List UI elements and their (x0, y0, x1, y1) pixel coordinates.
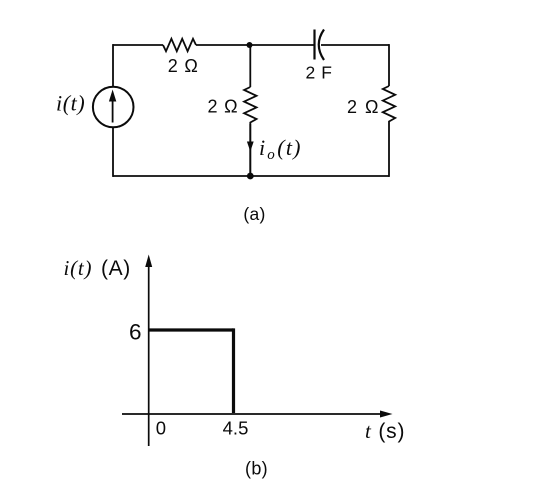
resistor R2 2ohm middle vertical zigzag (244, 87, 256, 124)
wire left vertical lower (source to bottom rail) (112, 127, 114, 177)
svg-text:2 Ω: 2 Ω (347, 97, 380, 117)
current source I1 arrow head (109, 90, 116, 102)
svg-text:4.5: 4.5 (223, 418, 249, 439)
current source I1 arrow shaft (112, 96, 114, 123)
wire top-left (source top to R1) (113, 44, 163, 46)
svg-text:2 F: 2 F (305, 62, 332, 82)
svg-text:t(s): t(s) (365, 419, 405, 443)
svg-text:0: 0 (156, 418, 166, 439)
svg-text:(b): (b) (245, 458, 268, 478)
wire bottom rail (113, 175, 389, 177)
graph x-axis line (122, 413, 387, 415)
arrow head io(t) current direction (247, 142, 254, 152)
graph y-axis line (148, 262, 150, 446)
node B (bottom junction dot) (247, 173, 254, 180)
wire left vertical upper (corner to source) (112, 44, 114, 87)
svg-text:2 Ω: 2 Ω (168, 56, 199, 76)
svg-text:(a): (a) (243, 204, 265, 224)
graph y-axis arrow head (145, 255, 152, 268)
step waveform falling edge at t=4.5 (232, 328, 235, 413)
wire R1 to node A (196, 44, 250, 46)
step waveform top segment (6 A from 0 to 4.5 s) (149, 328, 234, 331)
capacitor C1 2F curved plate (319, 30, 324, 61)
wire capacitor to top-right corner (321, 44, 389, 46)
node A (top junction dot) (247, 42, 253, 48)
current source I1 circle (93, 87, 134, 128)
resistor R3 2ohm right vertical zigzag (383, 86, 395, 125)
wire right vertical upper (388, 44, 390, 86)
resistor R1 2ohm top horizontal zigzag (163, 39, 196, 51)
svg-text:6: 6 (129, 320, 142, 345)
wire middle vertical upper (node A to R2) (249, 45, 251, 87)
svg-text:i(t)(A): i(t)(A) (64, 256, 131, 280)
svg-text:2 Ω: 2 Ω (207, 97, 238, 117)
svg-text:io(t): io(t) (259, 135, 302, 163)
wire node A to capacitor (250, 44, 315, 46)
graph x-axis arrow head (380, 411, 393, 418)
capacitor C1 2F straight plate (313, 30, 315, 60)
wire right vertical lower (388, 125, 390, 177)
svg-text:i(t): i(t) (56, 91, 85, 116)
wire middle vertical lower (R2 to node B) (249, 124, 251, 176)
